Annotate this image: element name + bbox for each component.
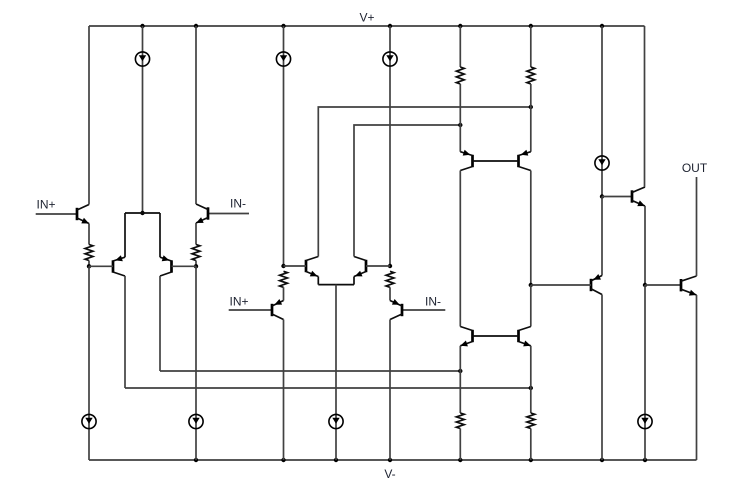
wire Q5 collector to V- rail bbox=[283, 320, 285, 461]
transistor Q13 (NPN output driver) bbox=[631, 190, 634, 202]
transistor Q9 (PNP quad upper-left) bbox=[471, 155, 474, 167]
transistor Q15 (NPN output) bbox=[680, 279, 683, 291]
wire R8 to V- rail bbox=[530, 429, 532, 461]
wire Q11 emitter to wire C node bbox=[459, 346, 461, 371]
wire Q3 collector down-left column bbox=[124, 276, 126, 388]
node on V+ rail at x=283.5 bbox=[281, 24, 285, 28]
wire node G to Q15 base bbox=[645, 284, 681, 286]
resistor R5 bbox=[280, 271, 288, 287]
node on V+ rail at x=142.5 bbox=[140, 24, 144, 28]
svg-text:V+: V+ bbox=[359, 11, 374, 25]
wire V+ rail to R2 bbox=[530, 26, 532, 67]
node wire A joins right quad column bbox=[529, 105, 533, 109]
wire Q8 base to node D bbox=[366, 265, 390, 267]
wire Q11-Q12 base link bbox=[473, 335, 519, 337]
wire Q3 collector to quad right column (wire D) bbox=[125, 387, 531, 389]
current source I5 bbox=[82, 414, 96, 428]
current source I3 bbox=[383, 52, 397, 66]
svg-text:IN+: IN+ bbox=[229, 295, 248, 309]
node on V- rail at x=390 bbox=[388, 458, 392, 462]
wire R4 to node B bbox=[195, 261, 197, 267]
wire Q7 collector feedback (node C to quad right column) bbox=[318, 107, 531, 257]
transistor Q10 (PNP quad upper-right) bbox=[517, 155, 520, 167]
transistor Q2 (NPN input follower, IN-) bbox=[207, 207, 210, 219]
node on V+ rail at x=460.3 bbox=[458, 24, 462, 28]
wire node to R8 bbox=[530, 388, 532, 413]
wire V+ power rail bbox=[89, 25, 645, 27]
wire node B down to current source I6 bbox=[195, 266, 197, 460]
svg-text:IN+: IN+ bbox=[36, 198, 55, 212]
resistor R7 bbox=[456, 413, 464, 429]
node on V- rail at x=336 bbox=[334, 458, 338, 462]
transistor Q12 (NPN quad lower-right) bbox=[517, 330, 520, 342]
wire R7 to V- rail bbox=[459, 429, 461, 461]
resistor R3 bbox=[85, 245, 93, 261]
transistor Q8 (NPN diff pair right) bbox=[365, 260, 368, 272]
wire stage1 emitter bridge bbox=[125, 212, 160, 214]
node on V- rail at x=530.8 bbox=[529, 458, 533, 462]
wire Q7 emitter stub to bridge bbox=[317, 277, 319, 285]
node on V+ rail at x=602 bbox=[600, 24, 604, 28]
current source I2 bbox=[276, 52, 290, 66]
current source I7 bbox=[329, 414, 343, 428]
wire node F down to Q14 emitter bbox=[601, 197, 603, 276]
wire Q15 emitter to V- rail end bbox=[696, 295, 698, 460]
wire IN+ lead to Q5 base bbox=[229, 309, 272, 311]
node wire C joins left quad column bbox=[458, 369, 462, 373]
wire OUT lead to Q15 collector bbox=[696, 177, 698, 276]
node on V- rail at x=602 bbox=[600, 458, 604, 462]
wire IN- lead to Q6 base bbox=[402, 309, 445, 311]
transistor Q7 (NPN diff pair left) bbox=[305, 260, 308, 272]
svg-text:IN-: IN- bbox=[230, 197, 246, 211]
wire R5 to Q5 emitter bbox=[283, 287, 285, 300]
resistor R1 bbox=[456, 67, 464, 84]
node A (Q1 emitter / Q3 base) bbox=[87, 264, 91, 268]
wire Q8 emitter stub to bridge bbox=[353, 277, 355, 285]
node on V+ rail at x=390 bbox=[388, 24, 392, 28]
node on V- rail at x=460.3 bbox=[458, 458, 462, 462]
wire R6 to Q6 emitter bbox=[389, 287, 391, 300]
svg-text:V-: V- bbox=[384, 467, 395, 481]
transistor Q5 (PNP follower, IN+) bbox=[271, 304, 274, 316]
wire Q13 emitter to node G bbox=[644, 206, 646, 285]
wire Q13 collector to V+ rail end bbox=[644, 26, 646, 187]
transistor Q1 (NPN input follower, IN+) bbox=[76, 208, 79, 220]
wire Q7 base to node C bbox=[284, 265, 307, 267]
wire V+ rail to current source I4 bbox=[601, 26, 603, 197]
node wire B joins left quad column bbox=[458, 123, 462, 127]
node F (I4 / Q13 base / Q14 emitter) bbox=[600, 194, 604, 198]
wire bridge to Q4 emitter bbox=[159, 213, 161, 257]
wire Q1 collector to V+ rail bbox=[88, 26, 90, 205]
resistor R6 bbox=[386, 271, 394, 287]
svg-text:IN-: IN- bbox=[425, 295, 441, 309]
wire Q1 emitter to R3 bbox=[88, 224, 90, 245]
wire right quad column lower (node E to Q12 collector) bbox=[530, 285, 532, 327]
node on V- rail at x=645 bbox=[643, 458, 647, 462]
wire Q6 collector to V- rail bbox=[389, 320, 391, 461]
resistor R8 bbox=[527, 413, 535, 429]
wire Q14 collector to V- rail bbox=[601, 295, 603, 461]
transistor Q11 (NPN quad lower-left) bbox=[471, 330, 474, 342]
wire IN+ lead to Q1 base bbox=[36, 213, 77, 215]
node C (I2 / R5 / Q7 base) bbox=[281, 264, 285, 268]
current source I8 bbox=[638, 414, 652, 428]
transistor Q14 (PNP level shift) bbox=[590, 279, 593, 291]
node G (Q13 emitter / Q15 base / I8) bbox=[643, 283, 647, 287]
node on V+ rail at x=196 bbox=[194, 24, 198, 28]
wire right quad column upper (Q10 collector to node E) bbox=[530, 171, 532, 286]
wire Q8 collector feedback (to quad left column) bbox=[354, 125, 460, 257]
wire node F to Q13 base bbox=[602, 196, 632, 198]
node on V- rail at x=283.5 bbox=[281, 458, 285, 462]
wire Q4 collector down column bbox=[159, 276, 161, 371]
node stage1 tail bridge center bbox=[140, 211, 144, 215]
wire R1 down across wire A to node B-join bbox=[459, 84, 461, 152]
resistor R4 bbox=[192, 245, 200, 261]
wire V+ rail to current source I2 bbox=[283, 26, 285, 266]
current source I6 bbox=[189, 414, 203, 428]
node wire D joins right quad column bbox=[529, 386, 533, 390]
node E (Q10/Q12 collectors to Q14 base) bbox=[529, 283, 533, 287]
wire V+ rail to current source I3 bbox=[389, 26, 391, 266]
wire Q3 base to node A bbox=[89, 265, 113, 267]
wire Q4 base to node B bbox=[172, 265, 197, 267]
wire V+ rail to current source I1 (stage1 tail) bbox=[142, 26, 144, 213]
wire stage2 emitter bridge bbox=[318, 284, 354, 286]
wire node G to current source I8 and V- rail bbox=[644, 285, 646, 460]
wire node A down to current source I5 bbox=[88, 266, 90, 460]
wire left quad column (Q9 collector to Q11 collector) bbox=[459, 171, 461, 327]
transistor Q6 (PNP follower, IN-) bbox=[401, 304, 404, 316]
current source I4 bbox=[595, 156, 609, 170]
node on V+ rail at x=530.8 bbox=[529, 24, 533, 28]
resistor R2 bbox=[527, 67, 535, 84]
wire R2 down to node A-join bbox=[530, 84, 532, 152]
wire bridge to Q3 emitter bbox=[124, 213, 126, 257]
wire Q14 base to node E bbox=[531, 284, 591, 286]
current source I1 bbox=[135, 52, 149, 66]
transistor Q3 (PNP diff pair left) bbox=[112, 260, 115, 272]
wire V- power rail bbox=[89, 459, 697, 461]
wire Q12 emitter to wire D node bbox=[530, 346, 532, 388]
wire Q2 emitter to R4 bbox=[195, 223, 197, 245]
svg-text:OUT: OUT bbox=[682, 161, 708, 175]
node on V- rail at x=196 bbox=[194, 458, 198, 462]
wire Q2 collector to V+ rail bbox=[195, 26, 197, 204]
wire R3 to node A bbox=[88, 261, 90, 267]
wire node to R7 bbox=[459, 371, 461, 413]
wire Q9-Q10 base link bbox=[473, 160, 519, 162]
wire IN- lead to Q2 base bbox=[208, 213, 249, 215]
wire Q4 collector to quad left column (wire C) bbox=[160, 370, 460, 372]
node B (Q2 emitter / Q4 base) bbox=[194, 264, 198, 268]
transistor Q4 (PNP diff pair right) bbox=[170, 260, 173, 272]
node D (I3 / R6 / Q8 base) bbox=[388, 264, 392, 268]
wire V+ rail to R1 bbox=[459, 26, 461, 67]
wire bridge center to current source I7 bbox=[335, 285, 337, 460]
